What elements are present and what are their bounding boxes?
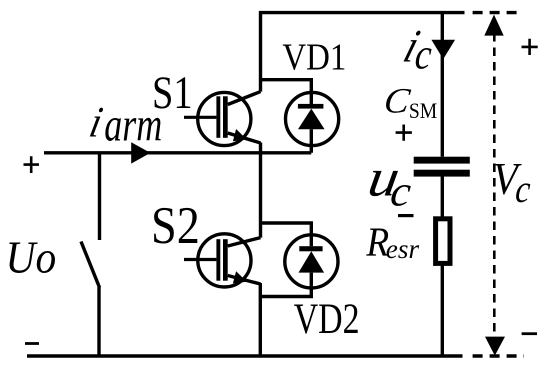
wire top rail bbox=[261, 13, 465, 92]
svg-text:arm: arm bbox=[104, 99, 162, 152]
svg-text:Uo: Uo bbox=[6, 233, 57, 283]
resistor Resr body bbox=[436, 219, 450, 264]
plus right bbox=[522, 39, 538, 55]
svg-text:SM: SM bbox=[409, 98, 438, 123]
IGBT S2 bbox=[184, 234, 261, 287]
voltage arrow Vc dashed line bbox=[493, 33, 496, 338]
current arrow iarm bbox=[131, 142, 150, 163]
svg-text:S2: S2 bbox=[151, 196, 200, 255]
wire cap to resistor bbox=[441, 177, 444, 218]
current arrow ic bbox=[431, 40, 455, 59]
voltage arrow Vc top head bbox=[484, 15, 503, 36]
minus left bbox=[25, 342, 39, 345]
diode VD2 bbox=[285, 235, 338, 289]
minus uc bbox=[398, 214, 414, 217]
diode VD1 bbox=[286, 92, 339, 146]
IGBT S1 bbox=[184, 92, 261, 146]
plus left bbox=[24, 156, 40, 173]
wire VD2 anode bbox=[260, 289, 311, 297]
svg-text:VD1: VD1 bbox=[282, 35, 346, 78]
wire S2 emitter vertical bbox=[259, 283, 262, 356]
wire Uo branch upper bbox=[98, 153, 101, 240]
wire Uo branch lower bbox=[97, 287, 100, 356]
minus right bbox=[522, 332, 537, 335]
wire mid vertical bbox=[259, 143, 262, 238]
switch blade bbox=[81, 242, 100, 288]
wire ic branch bbox=[441, 13, 444, 157]
dashed rail extension top bbox=[473, 11, 523, 14]
capacitor CSM plates bbox=[414, 157, 470, 164]
wire VD1 branch bbox=[259, 80, 311, 92]
plus capacitor bbox=[396, 125, 412, 141]
wire resistor to rail bbox=[441, 265, 444, 356]
voltage arrow Vc bottom head bbox=[485, 337, 505, 356]
dashed rail extension bottom bbox=[473, 354, 524, 357]
wire bottom rail bbox=[27, 354, 463, 357]
svg-text:esr: esr bbox=[386, 234, 420, 264]
svg-text:VD2: VD2 bbox=[294, 297, 360, 344]
wire iarm bbox=[44, 146, 311, 153]
wire VD2 branch bbox=[259, 223, 311, 235]
